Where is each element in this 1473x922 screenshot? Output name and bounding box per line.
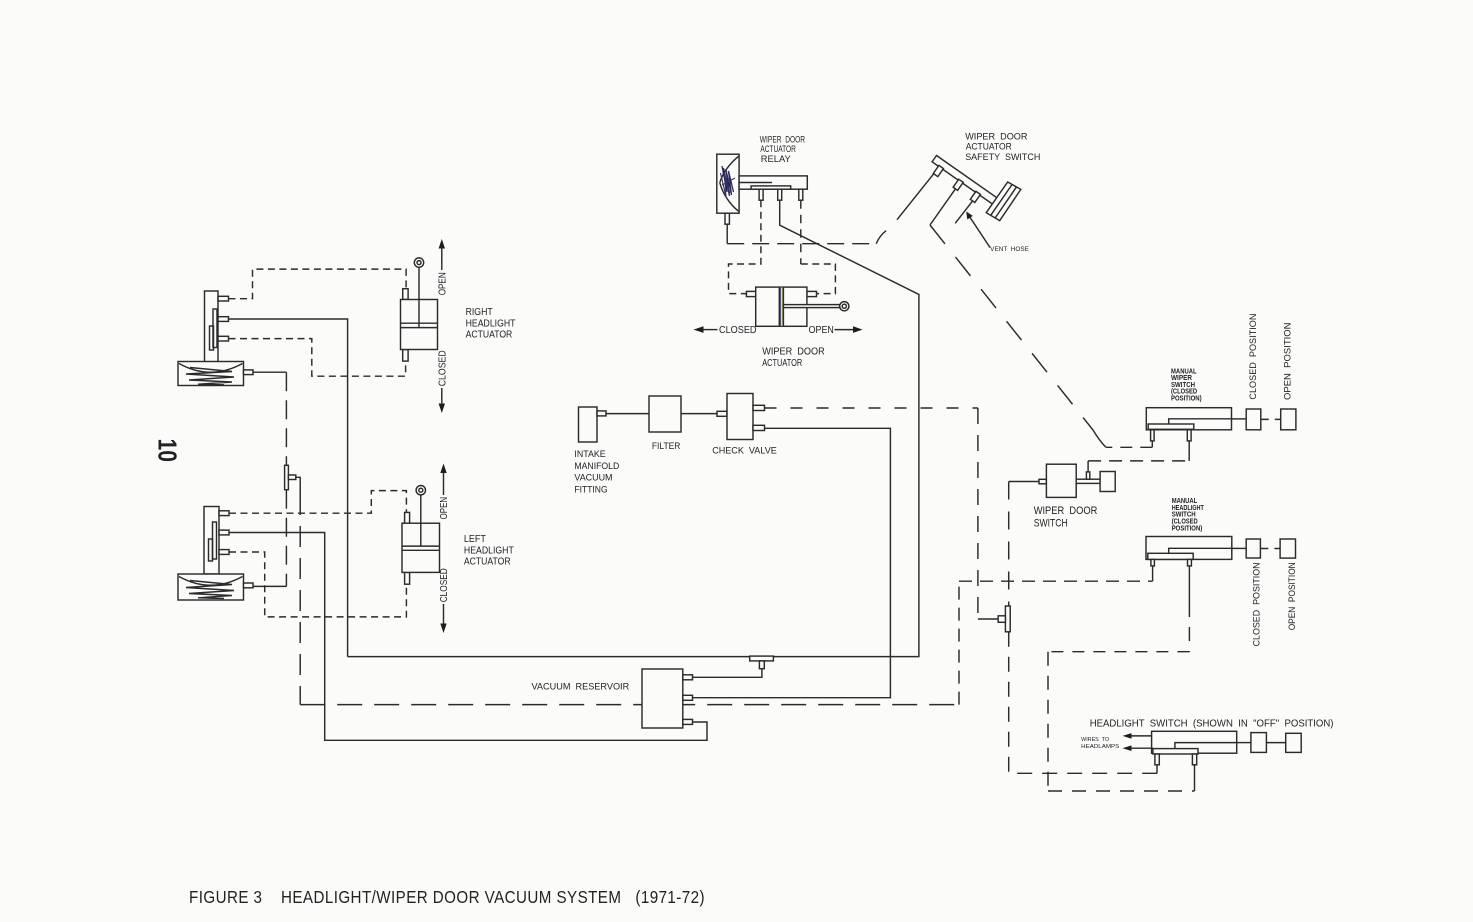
label wiper door switch <box>1034 505 1098 530</box>
svg-text:CLOSED: CLOSED <box>437 350 448 386</box>
tee fitting on reservoir header <box>750 656 774 669</box>
wire tee stem to vertical <box>978 618 998 620</box>
wiper door actuator <box>746 287 849 326</box>
svg-text:CHECK VALVE: CHECK VALVE <box>712 446 777 457</box>
wire elbow curve up-right <box>876 231 886 244</box>
wire check valve bottom port solid to reservoir middle port <box>693 428 891 697</box>
svg-text:HEADLIGHT: HEADLIGHT <box>466 318 516 329</box>
wire manual wiper switch port1 stub <box>1151 441 1153 447</box>
manual wiper switch <box>1146 408 1296 441</box>
wire RH valve port1 dashed loop to right actuator top <box>229 269 407 299</box>
vent hose label arrow <box>966 212 990 248</box>
svg-text:FIGURE 3 HEADLIGHT/WIPER DO: FIGURE 3 HEADLIGHT/WIPER DOOR VACUUM SYS… <box>189 887 705 907</box>
label wiper door actuator <box>762 346 825 369</box>
wire elbow curve at diagonal bottom <box>1093 430 1106 447</box>
svg-text:HEADLIGHT SWITCH (SHOWN IN: HEADLIGHT SWITCH (SHOWN IN "OFF" POSITIO… <box>1090 718 1334 729</box>
wire dashed vertical x1048 down <box>1047 652 1049 791</box>
wire dashed y651.7 left <box>1048 651 1189 653</box>
svg-text:ACTUATOR: ACTUATOR <box>966 142 1012 153</box>
wire dashed y791 right to headlight switch port2 <box>1048 790 1195 792</box>
manual headlight switch <box>1146 537 1296 566</box>
wire manual headlight switch port1 stub <box>1152 566 1154 581</box>
LH headlamp spring housing <box>178 574 253 600</box>
svg-text:POSITION): POSITION) <box>1172 525 1203 532</box>
wire long-dash vertical x286 upper <box>285 372 287 465</box>
label wires to headlamps <box>1081 737 1119 750</box>
wire long dashed horizontal y704.6 to corner x959 <box>300 704 959 706</box>
wire long-dash vertical x300 to reservoir dashed line <box>299 494 301 705</box>
svg-text:WIPER DOOR: WIPER DOOR <box>762 346 825 358</box>
wire hose from safety switch nipple2 <box>930 189 955 225</box>
wire long-dash vertical x286 lower <box>285 490 287 587</box>
label manual wiper switch (closed position) <box>1171 368 1202 402</box>
svg-text:LEFT: LEFT <box>464 534 486 545</box>
wire relay port1 dashed down-left to wiper actuator left port <box>729 200 761 293</box>
arrow OPEN up (right actuator) <box>439 239 445 270</box>
svg-text:RELAY: RELAY <box>761 154 792 165</box>
wire dashed down-right to wiper actuator right port <box>801 264 836 294</box>
wire vent hose open line from safety switch nipple3 <box>955 201 972 223</box>
wire LH valve port1 dashed loop to left actuator top <box>229 491 406 514</box>
svg-text:RIGHT: RIGHT <box>466 307 493 318</box>
svg-text:INTAKE: INTAKE <box>574 449 605 460</box>
wiper door actuator relay <box>717 154 808 224</box>
svg-text:SWITCH: SWITCH <box>1034 518 1068 530</box>
svg-text:OPEN POSITION: OPEN POSITION <box>1283 322 1294 400</box>
wire hose from safety switch nipple1 <box>897 173 935 220</box>
wire LH valve port2 solid to reservoir bottom port <box>229 533 707 741</box>
svg-text:ACTUATOR: ACTUATOR <box>466 330 513 341</box>
arrow wires-to-headlamps 2 <box>1123 745 1153 751</box>
wire dashed horizontal y243.7 toward safety switch <box>727 243 876 245</box>
svg-text:ACTUATOR: ACTUATOR <box>464 557 511 568</box>
tee fitting right line <box>998 606 1010 632</box>
svg-text:HEADLIGHT: HEADLIGHT <box>464 545 514 556</box>
label wiper door actuator safety switch <box>965 132 1040 164</box>
wire intake fitting to filter <box>606 413 649 415</box>
vacuum reservoir <box>642 669 693 728</box>
svg-text:CLOSED: CLOSED <box>719 324 757 336</box>
wire relay port3 heavy dashed down <box>800 200 802 264</box>
wire relay port2 solid diagonal to vertical x919 <box>780 200 919 656</box>
wire dashed y460.9 to manual wiper switch port2 <box>1088 460 1189 462</box>
arrow OPEN right (wiper door actuator) <box>835 326 863 333</box>
label manual headlight switch (closed position) <box>1172 498 1205 532</box>
wire check valve top port sparse dashed right <box>765 407 978 409</box>
check valve <box>717 394 765 440</box>
filter <box>649 396 681 432</box>
wire long-dash vertical x1008.7 upper <box>1008 482 1010 607</box>
wire LH spring box nipple solid stub <box>253 585 286 587</box>
wire dashed horizontal y581 to manual headlight switch port1 <box>959 580 1153 582</box>
wire headlight switch port1 stub <box>1156 765 1158 774</box>
wire reservoir header line horizontal <box>348 656 920 658</box>
svg-text:CLOSED POSITION: CLOSED POSITION <box>1248 313 1259 399</box>
wire manual wiper switch port2 stub <box>1188 441 1190 461</box>
svg-text:OPEN: OPEN <box>437 272 448 295</box>
svg-text:SAFETY SWITCH: SAFETY SWITCH <box>965 152 1040 163</box>
label right headlight actuator <box>466 307 516 341</box>
arrow CLOSED left (wiper door actuator) <box>694 326 718 333</box>
LH headlamp vacuum valve body <box>204 507 229 575</box>
wire wiper door switch tab riser <box>1087 461 1089 472</box>
svg-text:ACTUATOR: ACTUATOR <box>762 357 802 369</box>
svg-text:CLOSED POSITION: CLOSED POSITION <box>1252 562 1263 646</box>
wire reservoir top port to tee <box>693 669 762 678</box>
svg-text:CLOSED: CLOSED <box>439 568 450 602</box>
svg-text:POSITION): POSITION) <box>1171 396 1202 403</box>
tee fitting left line <box>285 465 296 489</box>
wire LH valve port3 dashed to left actuator bottom <box>229 552 406 617</box>
wire RH spring box nipple solid stub <box>253 371 286 373</box>
wire long-dash vertical x1008.7 lower with corner to headlight switch port1 <box>1009 632 1157 774</box>
svg-text:VACUUM RESERVOIR: VACUUM RESERVOIR <box>532 682 630 693</box>
svg-text:WIRES TO: WIRES TO <box>1081 737 1109 743</box>
wire dashed vertical x959 up <box>958 581 960 704</box>
wire filter to check valve <box>681 413 717 415</box>
svg-text:HEADLAMPS: HEADLAMPS <box>1081 744 1119 750</box>
wire dashed diagonal safety switch to wiper switch area <box>930 225 1093 430</box>
svg-text:MANIFOLD: MANIFOLD <box>574 461 619 472</box>
label wiper door actuator relay <box>760 135 805 165</box>
wire RH valve port3 dashed to right actuator bottom <box>229 339 406 377</box>
arrow CLOSED down (right actuator) <box>439 388 445 413</box>
svg-text:VACUUM: VACUUM <box>574 473 612 484</box>
wiper door switch <box>1039 464 1115 497</box>
headlight switch <box>1152 731 1302 765</box>
svg-text:FITTING: FITTING <box>574 484 607 495</box>
wire dashed vertical x977.9 down to tee stem <box>977 408 979 619</box>
svg-text:VENT HOSE: VENT HOSE <box>990 246 1029 253</box>
svg-text:OPEN POSITION: OPEN POSITION <box>1287 562 1298 630</box>
left headlight actuator <box>402 486 440 585</box>
arrow OPEN up (left actuator) <box>440 464 446 496</box>
svg-text:OPEN: OPEN <box>439 497 450 520</box>
wire RH valve port2 solid to reservoir header line <box>229 319 348 657</box>
wiper door actuator safety switch <box>932 156 1021 221</box>
RH headlamp spring housing <box>178 362 253 386</box>
svg-text:FILTER: FILTER <box>652 441 681 452</box>
intake manifold vacuum fitting <box>579 407 607 442</box>
wire headlight switch port2 stub <box>1194 765 1196 791</box>
wire manual headlight switch port2 down <box>1188 566 1190 603</box>
svg-text:OPEN: OPEN <box>809 324 834 336</box>
label intake manifold vacuum fitting <box>574 449 619 495</box>
wire wiper door switch line left <box>1009 481 1039 483</box>
wire T-fitting stem branch <box>296 477 300 494</box>
wire dashed y447.3 left to elbow <box>1106 446 1152 448</box>
wire manual headlight switch port2 dashed lower <box>1188 603 1190 652</box>
wire relay bracket nipple down <box>726 224 728 244</box>
RH headlamp vacuum valve body <box>205 291 229 362</box>
right headlight actuator <box>401 258 438 361</box>
svg-text:10: 10 <box>153 439 183 463</box>
arrow CLOSED down (left actuator) <box>440 604 446 633</box>
label left headlight actuator <box>464 534 514 568</box>
arrow wires-to-headlamps 1 <box>1123 733 1152 739</box>
svg-text:WIPER DOOR: WIPER DOOR <box>1034 505 1098 517</box>
